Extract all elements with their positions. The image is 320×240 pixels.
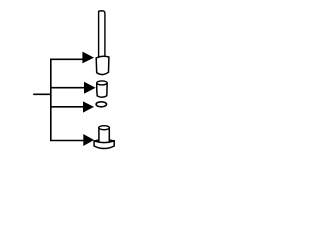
wire: left input stub: [33, 93, 51, 95]
wire: branch 3: [51, 106, 84, 108]
arrow 3 (to disc): [83, 101, 94, 112]
wire: branch 1 top with vertical bus and branch 4 bottom: [51, 59, 84, 140]
arrow 4 (to grommet): [83, 134, 94, 146]
disc ellipse: [96, 102, 106, 107]
pin shaft: [99, 11, 105, 58]
grommet upper cylinder body: [99, 128, 109, 144]
grommet flange body: [94, 141, 114, 149]
cylinder body: [97, 83, 107, 98]
grommet flange back rim: [94, 140, 114, 141]
arrow 1 (to pin): [82, 52, 94, 64]
wire: branch 2: [51, 87, 85, 89]
pin collar: [96, 56, 109, 74]
cylinder top ellipse: [97, 81, 107, 85]
grommet top ellipse: [99, 126, 109, 130]
arrow 2 (to cylinder): [84, 82, 96, 94]
